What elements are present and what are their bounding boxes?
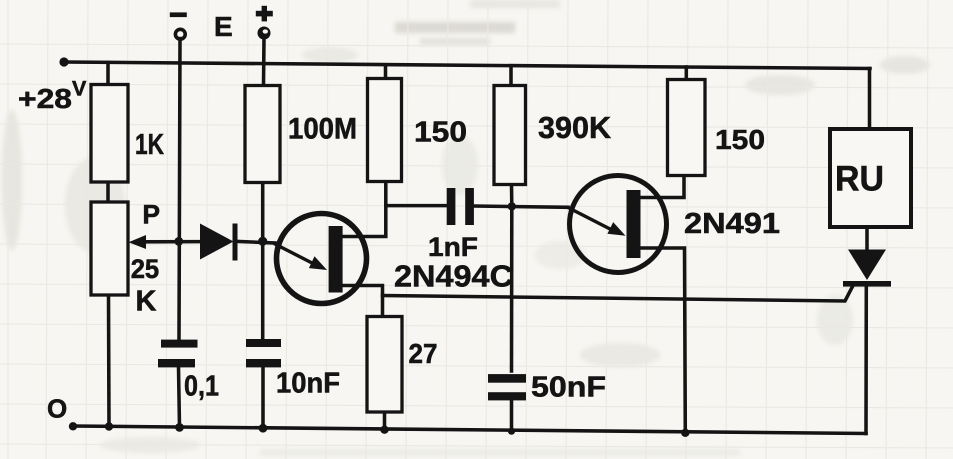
svg-text:150: 150: [715, 124, 765, 155]
svg-text:O: O: [47, 394, 67, 424]
svg-text:1K: 1K: [135, 129, 164, 161]
svg-text:100M: 100M: [288, 113, 357, 146]
svg-text:+28: +28: [18, 83, 72, 114]
svg-text:10nF: 10nF: [276, 368, 340, 400]
svg-text:390K: 390K: [538, 110, 612, 145]
svg-text:2N494C: 2N494C: [394, 259, 513, 294]
svg-text:2N491: 2N491: [684, 208, 780, 240]
svg-text:50nF: 50nF: [531, 372, 606, 404]
svg-text:RU: RU: [835, 159, 884, 198]
svg-text:0,1: 0,1: [184, 371, 219, 403]
svg-text:25: 25: [131, 254, 160, 284]
svg-text:E: E: [214, 11, 233, 42]
svg-text:P: P: [142, 200, 160, 230]
svg-text:27: 27: [409, 338, 438, 369]
svg-text:V: V: [72, 77, 87, 101]
svg-text:150: 150: [414, 117, 467, 149]
svg-text:K: K: [136, 286, 157, 318]
svg-text:1nF: 1nF: [428, 232, 478, 262]
